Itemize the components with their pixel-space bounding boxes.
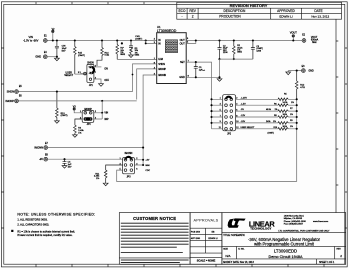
svg-text:GND: GND (309, 71, 314, 73)
resistor R1 (116, 39, 126, 59)
svg-text:IMN: IMN (145, 165, 149, 167)
terminal E8 -3V (39, 155, 49, 162)
wire SHDN net (18, 91, 132, 93)
ground (C4) (62, 166, 67, 169)
svg-text:GND: GND (35, 55, 41, 59)
terminal E2 VOUT (302, 35, 318, 45)
svg-text:ON: ON (104, 68, 108, 70)
ground (E3) (286, 72, 291, 75)
terminal E6 IMONP (5, 95, 22, 103)
resistor R9 row -15V (236, 120, 298, 124)
wire JP2 left stubs (210, 98, 222, 130)
svg-text:1. ALL RESISTORS 0603.: 1. ALL RESISTORS 0603. (17, 217, 47, 221)
svg-text:-1.5V to -36V: -1.5V to -36V (23, 38, 39, 42)
svg-text:VOUT: VOUT (290, 30, 298, 34)
svg-text:CUSTOMER NOTICE: CUSTOMER NOTICE (133, 216, 176, 221)
svg-text:4.7Ω: 4.7Ω (300, 86, 305, 89)
svg-text:IMP: IMP (104, 119, 109, 121)
svg-text:1%: 1% (96, 178, 99, 180)
pin numbers right of U1 (187, 38, 190, 77)
resistor R10 row USER SELECT (236, 126, 298, 135)
svg-text:JP1: JP1 (89, 85, 94, 87)
wire IMONP net (18, 100, 136, 102)
svg-text:24.3k: 24.3k (283, 102, 288, 104)
svg-text:IMONP: IMONP (158, 68, 166, 71)
wire IMONN net (48, 147, 145, 149)
terminal E1 VIN (23, 35, 47, 42)
svg-text:GND: GND (179, 76, 185, 79)
jumper JP4 IMONP (80, 109, 109, 126)
svg-text:TITLE: SCHEMATIC: TITLE: SCHEMATIC (223, 234, 245, 237)
capacitor C3 (251, 39, 263, 59)
svg-text:1630 McCarthy Blvd.: 1630 McCarthy Blvd. (284, 215, 305, 218)
svg-text:VIN: VIN (104, 113, 108, 115)
svg-text:SIZE: SIZE (223, 248, 228, 250)
Linear Technology logo (228, 218, 246, 227)
svg-text:IMONN: IMONN (158, 74, 166, 77)
wire IN pin2 drop (145, 39, 157, 44)
wire IMONN pin (143, 75, 157, 165)
jumper JP3 IMONN (119, 153, 138, 178)
svg-text:1%: 1% (290, 126, 293, 128)
svg-text:SHDN: SHDN (158, 63, 165, 66)
svg-text:DATE: DATE (314, 9, 322, 13)
via V2 (52, 29, 56, 42)
ground (R4) (73, 135, 78, 138)
resistor R2 (233, 39, 244, 60)
resistor R13 (56, 91, 68, 121)
svg-text:PCB DES: PCB DES (191, 232, 201, 234)
svg-text:USER SELECT: USER SELECT (241, 127, 256, 129)
svg-text:OFF: OFF (104, 80, 109, 82)
svg-text:NOTE: UNLESS OTHERWISE SPECIFI: NOTE: UNLESS OTHERWISE SPECIFIED: (17, 213, 95, 217)
svg-text:(OMIT): (OMIT) (61, 115, 68, 117)
svg-text:48.9k: 48.9k (266, 109, 271, 111)
svg-text:-3V: -3V (39, 157, 43, 161)
wire JP2 right stubs and numbers (236, 98, 239, 130)
wire IMONP to JP4 (94, 100, 103, 114)
svg-text:-15V: -15V (241, 121, 246, 123)
svg-text:EDWIN LI: EDWIN LI (208, 238, 218, 240)
resistor R8 row -12V (236, 114, 298, 118)
svg-text:1%: 1% (291, 102, 294, 104)
svg-text:243k: 243k (266, 121, 270, 123)
node VIN rail (47, 40, 157, 42)
svg-text:2. ALL CAPACITORS 0603.: 2. ALL CAPACITORS 0603. (17, 223, 49, 227)
svg-text:IN: IN (158, 42, 161, 45)
svg-text:1%: 1% (275, 109, 278, 111)
node USER SELECT (64, 72, 86, 77)
svg-text:APPROVED: APPROVED (277, 9, 295, 13)
svg-text:+3V: +3V (145, 160, 149, 162)
svg-text:TECHNOLOGY: TECHNOLOGY (250, 226, 271, 230)
capacitor CIN (55, 39, 67, 56)
svg-text:LT3090EDD: LT3090EDD (274, 249, 297, 254)
ground (R11) (103, 183, 108, 186)
svg-text:2: 2 (192, 15, 194, 19)
wire IMONP pin (137, 69, 157, 100)
svg-text:IMONN: IMONN (34, 146, 43, 150)
wire output cap bus (220, 58, 253, 60)
wire ILIM (117, 58, 157, 60)
svg-text:100k: 100k (283, 114, 287, 116)
svg-text:SET: SET (180, 61, 185, 64)
svg-text:(OMIT): (OMIT) (268, 132, 275, 134)
resistor R11 (94, 165, 123, 183)
ground (JP1 OFF) (99, 84, 104, 87)
jumper JP1 SHDN (78, 63, 110, 87)
svg-text:SCALE = NONE: SCALE = NONE (197, 260, 216, 263)
svg-text:VIN: VIN (29, 35, 33, 39)
svg-text:SELECT: SELECT (64, 75, 74, 77)
via V3 (73, 106, 82, 113)
wire OUT rail (186, 39, 302, 43)
svg-text:50V: 50V (62, 50, 66, 52)
capacitor CN1 with resistor R3 (129, 36, 142, 57)
svg-text:If lower current limit is requ: If lower current limit is required, modi… (17, 233, 72, 237)
svg-text:ECO: ECO (179, 9, 186, 13)
wire -3V net (48, 158, 123, 160)
svg-text:Demo Circuit 1948A: Demo Circuit 1948A (269, 255, 303, 259)
svg-text:Milpitas, CA 95035: Milpitas, CA 95035 (284, 217, 303, 220)
svg-text:0.5Ω: 0.5Ω (105, 54, 110, 57)
svg-text:Nov 13, 2013: Nov 13, 2013 (311, 14, 329, 18)
svg-text:IMONN: IMONN (125, 153, 133, 155)
svg-text:Fax: (408)434-0507: Fax: (408)434-0507 (284, 223, 304, 225)
revision history table (177, 2, 342, 19)
svg-text:R1 = 10k is chosen to activate: R1 = 10k is chosen to activate internal … (17, 229, 75, 233)
svg-text:REVISION HISTORY: REVISION HISTORY (230, 3, 268, 8)
svg-text:www.linear.com: www.linear.com (313, 220, 328, 223)
wire JP3 right pins to IMONN vertical (134, 159, 144, 166)
terminal E5 SHDN (7, 86, 23, 94)
svg-text:CDC: CDC (145, 170, 150, 172)
svg-text:DESCRIPTION: DESCRIPTION (224, 9, 246, 13)
right content margin line (335, 19, 337, 212)
svg-text:N/A: N/A (226, 254, 231, 258)
capacitor C2 (218, 39, 229, 77)
resistor R14 (97, 39, 110, 66)
svg-text:APPROVALS: APPROVALS (194, 219, 219, 223)
svg-text:IC NO.: IC NO. (238, 248, 245, 250)
capacitor C5 (194, 62, 205, 77)
approvals box (190, 213, 222, 265)
wire SET ladder bus (296, 99, 298, 181)
svg-text:USER: USER (66, 72, 73, 74)
svg-text:APP ENG: APP ENG (191, 237, 201, 240)
node CDC labels (145, 160, 150, 172)
svg-text:(OMIT): (OMIT) (135, 38, 142, 40)
svg-text:(OMIT): (OMIT) (78, 55, 85, 57)
svg-text:1%: 1% (78, 132, 81, 134)
ground (R13) (55, 121, 60, 124)
svg-text:SHDN: SHDN (7, 90, 14, 94)
svg-text:REV: REV (337, 248, 342, 250)
customer notice box (119, 213, 190, 265)
svg-text:LTC CONFIDENTIAL. FOR CUSTOMER: LTC CONFIDENTIAL. FOR CUSTOMER USE ONLY (278, 230, 330, 233)
via VOUT (290, 30, 298, 41)
terminal E7 IMONN (34, 143, 48, 150)
svg-text:SHEET 1 OF 1: SHEET 1 OF 1 (319, 262, 335, 264)
svg-text:with Programmable Current Limi: with Programmable Current Limit (254, 241, 315, 246)
ground (CN1/R3) (129, 55, 134, 58)
svg-text:-12V: -12V (241, 115, 246, 117)
resistor R7 row -5V (236, 108, 298, 112)
svg-text:EDWIN LI: EDWIN LI (279, 14, 293, 18)
svg-text:1%: 1% (273, 121, 276, 123)
svg-text:PRODUCTION: PRODUCTION (219, 15, 241, 19)
terminal E4 GND (35, 52, 58, 59)
resistor R15 (74, 39, 86, 74)
wire GND pin (186, 76, 220, 78)
svg-text:600mA: 600mA (311, 39, 319, 42)
ground (input) (55, 57, 60, 61)
svg-text:IMONP: IMONP (5, 99, 14, 103)
jumper JP2 output select (223, 95, 236, 136)
resistor R4 (74, 119, 85, 135)
terminal E3 GND (302, 66, 314, 73)
svg-text:ILIM: ILIM (158, 58, 163, 61)
svg-text:10V: 10V (68, 166, 72, 168)
svg-text:-1.25V: -1.25V (241, 97, 248, 99)
wire GND terminal (288, 70, 301, 72)
resistor R12 (295, 71, 305, 100)
svg-text:1%: 1% (290, 114, 293, 116)
regulator IC U1 LT3090EDD (157, 25, 187, 83)
pin numbers left of U1 (154, 38, 156, 75)
svg-text:301k: 301k (283, 126, 287, 128)
wire CDC bottom bus (117, 170, 297, 181)
svg-text:REV: REV (189, 9, 196, 13)
resistor R5 row -1.25V (236, 94, 298, 101)
title block (222, 213, 346, 265)
capacitor C4 (63, 158, 73, 168)
svg-text:-1.5V: -1.5V (241, 103, 247, 105)
svg-text:MODIFY DATE: Nov 13, 2013: MODIFY DATE: Nov 13, 2013 (223, 261, 254, 264)
resistor R6 row -1.5V (236, 102, 298, 106)
note text (11, 213, 95, 237)
svg-text:OUT: OUT (180, 42, 186, 45)
wire SHDN pin to SHDN net (133, 64, 157, 92)
ground (U1 GND) (217, 77, 222, 81)
svg-text:-: - (181, 15, 182, 19)
wire SET net (186, 61, 211, 129)
svg-text:-5V: -5V (241, 109, 245, 111)
